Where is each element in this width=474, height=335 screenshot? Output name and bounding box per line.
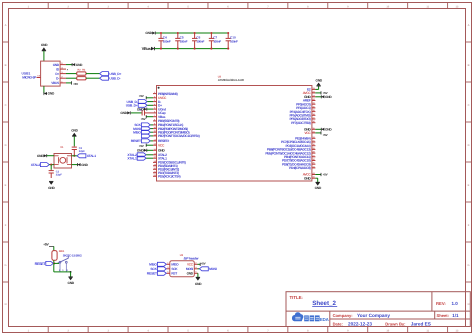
U2 pin 5 UGnd bbox=[153, 107, 166, 112]
svg-text:15: 15 bbox=[313, 176, 315, 179]
svg-text:8: 8 bbox=[154, 118, 155, 121]
net port XTAL1 at crystal bbox=[74, 154, 96, 158]
svg-text:XTAL2: XTAL2 bbox=[31, 163, 41, 167]
svg-text:VBUS: VBUS bbox=[51, 81, 59, 85]
svg-text:Jared ES: Jared ES bbox=[411, 321, 431, 326]
net port RESET at button bbox=[35, 261, 54, 266]
svg-text:GND: GND bbox=[53, 63, 60, 67]
ground flag GND (cap bank top rail) bbox=[145, 31, 155, 35]
ground flag at U2 GND (right top) bbox=[315, 95, 332, 99]
net port XTAL1 at U2 bbox=[127, 156, 153, 160]
U2 pin 8 PB0(SS/PCINT0) bbox=[153, 118, 179, 123]
U2 pin 17 XTAL1 bbox=[153, 156, 167, 161]
wire top rail of cap bank bbox=[156, 32, 228, 34]
wire reset node down to bottom rail bbox=[53, 263, 55, 272]
net port MOSI at U3 bbox=[198, 267, 218, 271]
svg-text:100nF: 100nF bbox=[180, 39, 188, 43]
junction crystal bottom-left node bbox=[50, 164, 52, 166]
net port MISO at U3 bbox=[149, 262, 166, 266]
svg-text:MICRO-5P: MICRO-5P bbox=[22, 75, 37, 79]
svg-text:GND: GND bbox=[37, 154, 44, 158]
junction on rails at C6 bbox=[194, 32, 196, 50]
net port MISO bbox=[133, 130, 153, 134]
net port at U2 PB7 bbox=[141, 134, 153, 138]
U2 pin 13 RESET# bbox=[153, 138, 169, 143]
U2 pin 43 AVCC bbox=[303, 172, 316, 177]
U2 pin 42 AREF bbox=[303, 98, 316, 103]
U2 pin 27 PB4(PCINT4/ADC11) bbox=[284, 154, 315, 159]
svg-text:GND: GND bbox=[195, 282, 202, 286]
net port USB_D- bbox=[100, 76, 121, 80]
svg-text:RESET: RESET bbox=[35, 262, 47, 266]
junction on rails at C4 bbox=[160, 32, 162, 50]
power flag +5V at U2 UVCC bbox=[139, 94, 153, 99]
U2 pin 15 GND bbox=[304, 176, 315, 181]
svg-text:H: H bbox=[5, 303, 7, 306]
svg-text:GND: GND bbox=[68, 281, 75, 285]
U2 pin 36 PF7(ADC7/TDI) bbox=[291, 120, 315, 125]
resistor R3 22R bbox=[77, 69, 86, 80]
svg-text:PF7(ADC7/TDI): PF7(ADC7/TDI) bbox=[291, 121, 310, 125]
svg-text:GND: GND bbox=[48, 92, 55, 96]
title block bbox=[286, 292, 470, 327]
wire R2 to USB_D+ port bbox=[86, 73, 100, 75]
svg-text:40: 40 bbox=[313, 105, 315, 108]
net port XTAL2 at crystal bbox=[31, 163, 54, 167]
U2 pin 1 PE6(INT6/AIN0) bbox=[153, 91, 178, 96]
svg-text:18: 18 bbox=[154, 160, 156, 163]
svg-text:XTAL1: XTAL1 bbox=[87, 154, 97, 158]
ground flag above USB1 bbox=[41, 43, 48, 61]
wire R3 to USB_D- port bbox=[86, 77, 100, 79]
svg-text:100nF: 100nF bbox=[230, 39, 238, 43]
svg-text:GND: GND bbox=[187, 272, 194, 276]
ground flag + capacitor C1 at U2 UCap bbox=[120, 111, 130, 115]
svg-text:C: C bbox=[468, 104, 470, 107]
svg-text:15: 15 bbox=[154, 148, 156, 151]
ground flag below C3 bbox=[48, 181, 55, 190]
ground flag right of crystal bbox=[78, 163, 89, 167]
power flag +5V at U2 AVCC (top) bbox=[315, 91, 327, 95]
wire U2 E2 pin to top ground bbox=[315, 86, 318, 89]
svg-text:+5V: +5V bbox=[139, 94, 144, 98]
capacitor C10 100nF bbox=[226, 33, 238, 49]
svg-text:30: 30 bbox=[313, 143, 315, 146]
svg-text:G: G bbox=[4, 264, 6, 267]
power flag +5V at USB VBUS bbox=[66, 81, 78, 86]
svg-text:Company:: Company: bbox=[333, 313, 353, 318]
svg-text:GND: GND bbox=[325, 95, 332, 99]
svg-text:21: 21 bbox=[154, 170, 156, 173]
no-connect mark on USB ID pin bbox=[67, 69, 69, 72]
USB connector USB1 bbox=[22, 61, 67, 86]
capacitor C2 22pF bbox=[72, 146, 86, 156]
svg-text:9: 9 bbox=[154, 122, 155, 125]
svg-text:28: 28 bbox=[313, 151, 315, 154]
svg-text:USB_D-: USB_D- bbox=[109, 76, 120, 80]
net port SCK at U3 bbox=[150, 267, 166, 271]
svg-text:A: A bbox=[468, 24, 470, 27]
svg-text:3: 3 bbox=[167, 266, 168, 269]
svg-text:RST: RST bbox=[171, 272, 177, 276]
wire crystal pin to C2 node bbox=[72, 155, 75, 157]
U2 pin 21 PD3(TXD1/INT3) bbox=[153, 170, 179, 175]
power flag +5V at U3 VCC bbox=[198, 261, 206, 266]
svg-text:GND: GND bbox=[158, 149, 165, 153]
svg-text:100nF: 100nF bbox=[196, 39, 204, 43]
svg-text:5: 5 bbox=[154, 107, 155, 110]
svg-text:B: B bbox=[468, 64, 470, 67]
svg-text:+5V: +5V bbox=[323, 173, 328, 177]
svg-text:EDA: EDA bbox=[320, 317, 330, 322]
net port USB_D+ bbox=[100, 72, 122, 76]
svg-text:GND: GND bbox=[71, 129, 78, 133]
svg-text:38: 38 bbox=[313, 113, 315, 116]
U2 pin 16 XTAL2 bbox=[153, 152, 167, 157]
svg-text:10: 10 bbox=[154, 126, 156, 129]
wire U2 GND pin to bottom ground bbox=[315, 177, 317, 179]
svg-text:100nF: 100nF bbox=[213, 39, 221, 43]
svg-text:+5V: +5V bbox=[73, 82, 78, 86]
svg-text:1/1: 1/1 bbox=[452, 313, 459, 318]
U2 pin 30 PC6(OC3A/OC4A#) bbox=[286, 143, 316, 148]
net port XTAL2 at U2 bbox=[127, 153, 153, 157]
U2 pin 28 PB5(PCINT5/OC1A/OC4B#/ADC12) bbox=[265, 151, 315, 156]
svg-text:A: A bbox=[5, 24, 7, 27]
svg-text:5: 5 bbox=[167, 271, 168, 274]
capacitor C3 22pF bbox=[49, 165, 63, 178]
svg-text:+5V: +5V bbox=[139, 144, 144, 148]
U2 pin 15 GND bbox=[153, 148, 165, 153]
svg-text:GND: GND bbox=[304, 176, 311, 180]
svg-text:35: 35 bbox=[313, 127, 315, 130]
net port SCK bbox=[134, 123, 153, 127]
svg-text:33: 33 bbox=[313, 87, 315, 90]
U2 pin 12 PB7(PCINT7/OC0A/OC1C/RTS#) bbox=[153, 133, 200, 138]
capacitor C7 100nF bbox=[209, 33, 221, 49]
power flag +5V at U2 VBus bbox=[141, 115, 153, 121]
svg-text:USB_D+: USB_D+ bbox=[109, 72, 121, 76]
svg-text:6-9: 6-9 bbox=[37, 75, 40, 78]
svg-text:D-: D- bbox=[56, 76, 59, 80]
ground flag above U2 right bbox=[316, 78, 323, 86]
svg-text:3: 3 bbox=[154, 99, 155, 102]
svg-text:MOSI: MOSI bbox=[209, 267, 217, 271]
svg-text:RESET: RESET bbox=[147, 272, 157, 276]
wire button bottom rail bbox=[54, 271, 71, 273]
U2 pin 34 VCC bbox=[304, 130, 315, 135]
connector U3 ISP header bbox=[167, 254, 200, 277]
wire USB shell to ground bbox=[43, 86, 45, 93]
capacitor C1 1uF bbox=[131, 109, 153, 116]
svg-text:H: H bbox=[468, 303, 470, 306]
svg-text:2: 2 bbox=[195, 262, 196, 265]
net port RESET at U2 bbox=[131, 139, 153, 143]
ground flag below U3 bbox=[195, 273, 202, 286]
svg-text:13: 13 bbox=[154, 138, 156, 141]
svg-text:36: 36 bbox=[313, 120, 315, 123]
net port MOSI bbox=[133, 127, 153, 131]
svg-text:1: 1 bbox=[154, 91, 155, 94]
capacitor C5 100nF bbox=[175, 33, 187, 49]
svg-text:12: 12 bbox=[154, 133, 156, 136]
U2 pin 35 GND bbox=[304, 127, 315, 132]
U2 pin 22 PD5(XCK1/CTS#) bbox=[153, 174, 180, 179]
wire USB D+ to R2 bbox=[66, 73, 77, 75]
power flag +5V at U2 AVCC (bottom) bbox=[315, 173, 327, 177]
U2 pin 2 UVCC bbox=[153, 95, 167, 100]
svg-text:PD5(XCK1/CTS#): PD5(XCK1/CTS#) bbox=[158, 175, 180, 179]
svg-text:ISP header: ISP header bbox=[184, 256, 200, 260]
svg-text:1: 1 bbox=[167, 262, 168, 265]
svg-text:TITLE:: TITLE: bbox=[290, 295, 304, 300]
svg-text:11: 11 bbox=[154, 130, 156, 133]
svg-text:6: 6 bbox=[154, 110, 155, 113]
svg-text:7: 7 bbox=[154, 114, 155, 117]
svg-text:32: 32 bbox=[313, 136, 315, 139]
U2 pin 11 PB3(PDO/PCINT3/MISO) bbox=[153, 130, 190, 135]
wire USB GND pin to flag bbox=[66, 64, 72, 66]
junction on rails at C10 bbox=[227, 32, 229, 50]
svg-text:19: 19 bbox=[154, 163, 156, 166]
svg-text:37: 37 bbox=[313, 117, 315, 120]
svg-text:ATMEGA32U4-AUR: ATMEGA32U4-AUR bbox=[218, 78, 245, 82]
svg-text:GND: GND bbox=[41, 43, 48, 47]
svg-text:B: B bbox=[5, 64, 7, 67]
ground flag above crystal bbox=[71, 129, 78, 147]
svg-text:20: 20 bbox=[154, 167, 156, 170]
svg-text:GND: GND bbox=[316, 78, 323, 82]
junction on rails at C5 bbox=[177, 32, 179, 50]
svg-text:22pF: 22pF bbox=[79, 150, 85, 153]
U2 pin 18 PD0(OC0B/SCL/INT0) bbox=[153, 160, 186, 165]
svg-text:GND: GND bbox=[81, 163, 88, 167]
svg-text:22: 22 bbox=[154, 174, 156, 177]
svg-text:25: 25 bbox=[313, 162, 315, 165]
svg-text:29: 29 bbox=[313, 147, 315, 150]
U2 pin 3 D- bbox=[153, 99, 161, 104]
wire reset node to button bbox=[54, 262, 59, 264]
svg-text:PD4(ICP1/ADC8): PD4(ICP1/ADC8) bbox=[289, 166, 311, 170]
svg-text:D: D bbox=[468, 144, 470, 147]
svg-text:39: 39 bbox=[313, 109, 315, 112]
U2 pin 25 PD6(T1/OC4D#/ADC9) bbox=[282, 162, 315, 167]
svg-text:G: G bbox=[467, 264, 469, 267]
U2 pin 19 PD1(SDA/INT1) bbox=[153, 163, 178, 168]
svg-text:GND: GND bbox=[137, 149, 144, 153]
ground flag below U2 right bbox=[315, 178, 322, 190]
svg-text:MISO: MISO bbox=[149, 263, 157, 267]
svg-text:17: 17 bbox=[154, 156, 156, 159]
U2 pin 26 PD7(T0/OC4D/ADC10) bbox=[282, 158, 315, 163]
svg-text:+5V: +5V bbox=[141, 117, 146, 121]
U2 pin 32 PE2(HWB#) bbox=[295, 136, 315, 141]
ground flag right of USB pin 5 bbox=[72, 63, 83, 67]
capacitor C4 100nF bbox=[158, 33, 170, 49]
U2 pin 38 PF5(ADC5/TMS) bbox=[289, 113, 315, 118]
svg-text:SK22C-1.5-260G: SK22C-1.5-260G bbox=[63, 254, 83, 258]
push button SW1 SK22C-1.5-260G bbox=[58, 250, 83, 272]
U2 pin 37 PF6(ADC6/TDO) bbox=[289, 117, 315, 122]
U2 pin 24 AVCC bbox=[303, 90, 316, 95]
ground flag at U2 UGnd bbox=[137, 107, 153, 111]
svg-text:+5V: +5V bbox=[43, 243, 49, 247]
U2 pin 10 PB2(PDI/PCINT2/MOSI) bbox=[153, 126, 188, 131]
U2 pin 20 PD2(RXD1/INT2) bbox=[153, 167, 179, 172]
svg-text:100nF: 100nF bbox=[163, 39, 171, 43]
power flag +5V at U2 VCC (right) bbox=[315, 131, 327, 137]
svg-text:1.0: 1.0 bbox=[452, 301, 459, 306]
U2 pin 29 PB6(PCINT6/OC1B/OC4B/ADC13) bbox=[267, 147, 316, 152]
svg-text:MOSI: MOSI bbox=[186, 267, 193, 271]
U2 pin 9 PB1(PCINT1/SCLK) bbox=[153, 122, 183, 127]
U2 pin 33 E2 bbox=[307, 87, 315, 92]
resistor R2 22R bbox=[77, 69, 86, 76]
svg-text:42: 42 bbox=[313, 98, 315, 101]
svg-text:+5V: +5V bbox=[323, 133, 328, 137]
ground flag at U2 GND (left) bbox=[137, 149, 153, 153]
svg-text:22pF: 22pF bbox=[56, 174, 62, 177]
net flag VBus (cap bank bottom rail) bbox=[142, 46, 155, 51]
svg-text:2022-12-23: 2022-12-23 bbox=[348, 321, 372, 326]
U2 pin 40 PF1(ADC1) bbox=[296, 105, 315, 110]
logo EasyEDA bbox=[292, 312, 330, 322]
U2 pin 31 PC7(ICP3/CLK0/OC4A) bbox=[281, 140, 315, 145]
svg-text:GND: GND bbox=[48, 186, 55, 190]
svg-text:RESET: RESET bbox=[131, 139, 141, 143]
svg-text:XTAL1: XTAL1 bbox=[127, 156, 137, 160]
svg-text:43: 43 bbox=[313, 172, 315, 175]
svg-text:X1: X1 bbox=[60, 146, 64, 149]
svg-text:PB7(PCINT7/OC0A/OC1C/RTS#): PB7(PCINT7/OC0A/OC1C/RTS#) bbox=[158, 134, 200, 138]
svg-text:GND: GND bbox=[76, 63, 83, 67]
svg-text:Date:: Date: bbox=[333, 321, 343, 326]
junction on rails at C7 bbox=[210, 32, 212, 50]
svg-text:SW1: SW1 bbox=[59, 250, 65, 253]
U2 pin 44 PD4(ICP1/ADC8) bbox=[289, 165, 316, 170]
U2 pin 39 PF4(ADC4/TCK) bbox=[290, 109, 316, 114]
svg-text:+5V: +5V bbox=[201, 261, 206, 265]
junction bottom rail to ground bbox=[70, 271, 72, 273]
svg-text:GND: GND bbox=[145, 31, 152, 35]
svg-text:VCC: VCC bbox=[187, 263, 194, 267]
net port USB_D- at U2 bbox=[127, 100, 153, 104]
IC U2 ATMEGA32U4-AUR microcontroller bbox=[157, 75, 312, 181]
svg-text:2: 2 bbox=[154, 95, 155, 98]
svg-text:31: 31 bbox=[313, 140, 315, 143]
svg-text:Your Company: Your Company bbox=[357, 313, 390, 318]
net port USB_D+ at U2 bbox=[126, 103, 153, 107]
wire bottom rail of cap bank bbox=[155, 48, 229, 50]
svg-text:C: C bbox=[5, 104, 7, 107]
svg-text:MISO: MISO bbox=[133, 130, 141, 134]
ground flag below SW1 bbox=[68, 272, 75, 285]
svg-text:Sheet:: Sheet: bbox=[437, 313, 450, 318]
wire R1 bottom to reset node bbox=[53, 260, 55, 263]
svg-text:VCC: VCC bbox=[304, 131, 311, 135]
junction crystal top-right node bbox=[73, 155, 75, 157]
capacitor C6 100nF bbox=[192, 33, 204, 49]
svg-text:E: E bbox=[468, 184, 470, 187]
ground flag below USB1 bbox=[44, 92, 55, 96]
svg-text:D: D bbox=[5, 144, 7, 147]
svg-text:23: 23 bbox=[313, 94, 315, 97]
svg-text:SCK: SCK bbox=[171, 267, 178, 271]
wire USB D- to R3 bbox=[66, 77, 77, 79]
ground flag left of crystal bbox=[37, 154, 54, 158]
svg-text:REV:: REV: bbox=[436, 301, 446, 306]
wire U3 GND to ground bbox=[197, 272, 199, 274]
svg-text:GND: GND bbox=[325, 128, 332, 132]
svg-text:27: 27 bbox=[313, 154, 315, 157]
svg-text:GND: GND bbox=[315, 186, 322, 190]
svg-text:GND: GND bbox=[120, 111, 127, 115]
svg-text:D+: D+ bbox=[55, 72, 59, 76]
net port RESET at U3 bbox=[147, 271, 167, 275]
junction reset node bbox=[53, 262, 55, 264]
svg-text:26: 26 bbox=[313, 158, 315, 161]
svg-text:SCK: SCK bbox=[150, 267, 157, 271]
wire crystal pin2 to right ground bbox=[72, 164, 78, 166]
power flag +5V above R1 bbox=[43, 243, 54, 251]
U2 pin 14 VCC bbox=[153, 143, 165, 148]
resistor R1 10K bbox=[52, 251, 57, 261]
svg-text:VCC: VCC bbox=[158, 143, 165, 147]
U2 pin 7 VBus bbox=[153, 114, 166, 119]
crystal X1 bbox=[54, 146, 72, 168]
svg-text:VBus: VBus bbox=[142, 46, 152, 51]
svg-text:16: 16 bbox=[154, 152, 156, 155]
U2 pin 6 UCap bbox=[153, 110, 166, 115]
U2 pin 23 GND bbox=[304, 94, 315, 99]
svg-text:E: E bbox=[5, 184, 7, 187]
svg-text:41: 41 bbox=[313, 102, 315, 105]
svg-text:6: 6 bbox=[195, 271, 196, 274]
svg-text:Drawn By:: Drawn By: bbox=[385, 321, 405, 326]
power flag +5V at U2 VCC bbox=[139, 144, 153, 148]
U2 pin 4 D+ bbox=[153, 103, 162, 108]
svg-text:MISO: MISO bbox=[171, 263, 179, 267]
U2 pin 41 PF0(ADC0) bbox=[296, 102, 315, 107]
ground flag at U2 GND (right mid) bbox=[315, 128, 332, 132]
